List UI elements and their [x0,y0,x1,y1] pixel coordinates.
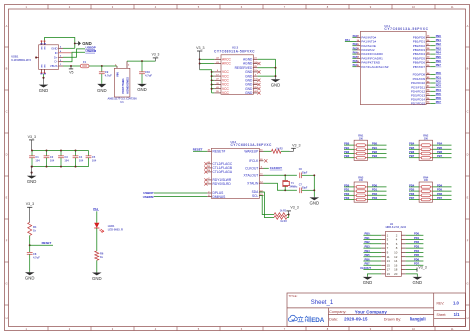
svg-text:HDR-F-2.54_2x10: HDR-F-2.54_2x10 [386,226,407,229]
wire net PD3_ [368,199,387,201]
junction [288,214,290,216]
ground at H1 right [416,276,418,278]
wire net PD5_ [433,190,452,192]
svg-text:PD3: PD3 [436,84,442,88]
power flag V3_3 at H1 [416,268,418,272]
wire net PB1_ [363,239,381,241]
svg-text:PB1: PB1 [436,38,442,42]
svg-text:V3_3: V3_3 [152,53,160,57]
U1 pin VOUT [126,61,128,68]
wire net PD4_ [406,251,424,253]
svg-text:Drawn By:: Drawn By: [384,317,402,321]
svg-text:F1: F1 [83,60,87,64]
svg-text:PD6_: PD6_ [437,192,444,196]
svg-text:PD2: PD2 [344,192,350,196]
svg-text:GND: GND [245,91,253,95]
U2.2 pin DMINUS [207,196,211,198]
wire net PD7 [409,199,419,201]
wire net PB2 [344,153,354,155]
U2.2 pin SDA [259,191,263,193]
junction [46,150,48,152]
wire net PD6_ [433,194,452,196]
svg-text:GND: GND [92,276,102,281]
wire VCC bus [200,70,212,93]
svg-text:G: G [466,282,468,286]
U2.2 pin CTL1/FLAGB [207,167,211,169]
svg-text:104: 104 [92,158,97,162]
svg-text:PD4_: PD4_ [437,183,444,187]
wire to net label RESET [30,244,53,246]
svg-text:CY7C68013A-56PVXC: CY7C68013A-56PVXC [231,143,272,147]
power flag V3_3 at U1 [155,58,157,61]
no-connect mark IFCLK [264,159,267,162]
RN1 resistor element 4 [354,157,356,159]
U2.2 pin CTL0/FLAGA [207,171,211,173]
svg-text:R4: R4 [33,225,37,229]
U2.3 pin AGND [253,58,257,60]
svg-text:GND: GND [25,276,35,281]
wire net PB5 [409,148,419,150]
svg-text:CLKOUT: CLKOUT [270,166,282,170]
svg-text:GND: GND [137,87,147,92]
resistor R6 [95,251,99,260]
wire net USBDM [154,196,208,198]
wire SCL to R1 [259,196,274,215]
U2.1 pin PD0/FD8 [426,74,430,76]
wire net PB2_ [363,243,381,245]
svg-text:liangjuli: liangjuli [410,317,426,322]
svg-text:19: 19 [387,272,391,276]
wire net PD4_ [433,186,452,188]
svg-text:PD6: PD6 [409,192,415,196]
wire net PD1_ [368,190,387,192]
H1 pin 9 [381,251,385,253]
RN3 resistor element 4 [354,199,356,201]
capacitor C8 [27,251,33,253]
svg-text:IFCLK: IFCLK [249,159,259,163]
wire net PB4_ [433,144,452,146]
junction [70,65,72,67]
junction [313,174,315,176]
junction [74,42,76,44]
svg-text:PB5: PB5 [409,146,415,150]
wire net PD1 [430,78,435,80]
svg-text:100: 100 [424,179,429,182]
capacitor C2 [46,151,48,156]
ground below USB1 [43,78,45,85]
svg-text:Company:: Company: [329,310,346,314]
svg-text:PB1_: PB1_ [365,236,372,240]
H1 pin 15 [381,264,385,266]
H1 pin 18 [401,269,405,271]
wire CLKOUT stub [264,167,269,169]
wire cap bank top rail [32,150,89,152]
svg-text:104: 104 [35,158,40,162]
ground at crystal [313,196,315,199]
svg-text:R6: R6 [100,252,104,256]
capacitor C7 [299,188,301,194]
power flag V3_3 at R1/R3 [288,211,290,215]
wire net USBDP [154,192,208,194]
U2.3 pin GND [253,84,257,86]
RN3 resistor element 2 [354,190,356,192]
RN4 resistor element 3 [419,194,421,196]
RN2 resistor element 1 [419,144,421,146]
svg-text:VCC: VCC [222,91,230,95]
svg-text:PD6: PD6 [436,96,442,100]
svg-text:PA7: PA7 [353,63,358,67]
fuse F1 [80,64,89,68]
svg-text:TITLE:: TITLE: [289,294,298,298]
svg-text:Your Company: Your Company [355,309,388,314]
svg-text:D: D [467,153,469,157]
svg-text:20pF: 20pF [302,172,308,175]
H1 pin 17 [381,269,385,271]
svg-text:PB2: PB2 [344,150,350,154]
svg-text:CTL0/FLAGA: CTL0/FLAGA [213,170,233,174]
RN4 resistor element 2 [419,190,421,192]
wire net PB7 [409,157,419,159]
svg-text:V3_3: V3_3 [196,46,204,50]
U2.1 pin PA0/INT0# [356,36,360,38]
wire net PD3 [344,199,354,201]
svg-text:PA3: PA3 [353,46,358,50]
H1 pin 7 [381,247,385,249]
svg-text:RESET: RESET [193,148,203,152]
junction on ground stem [31,172,33,174]
wire VBUS rail [63,65,80,67]
U2.2 pin RESET# [207,150,211,152]
wire XTALIN to crystal [264,183,297,190]
wire net PB6 [409,153,419,155]
svg-text:RESET#: RESET# [213,149,226,153]
svg-text:PB4_: PB4_ [365,249,372,253]
H1 pin 2 [401,234,405,236]
wire net PB3_ [363,247,381,249]
svg-text:GND: GND [39,88,49,93]
svg-text:100: 100 [359,137,364,140]
title block [287,293,466,327]
svg-text:PB6_: PB6_ [365,257,372,261]
svg-text:V3_3: V3_3 [26,202,34,206]
U2.2 pin SCL [259,195,263,197]
USB1 shell pins bottom [41,69,43,73]
svg-text:Sheet:: Sheet: [437,313,447,317]
svg-text:D+: D+ [54,55,58,59]
wire R1/R3 join [287,214,289,216]
svg-text:100: 100 [424,137,429,140]
svg-text:GND: GND [27,179,37,184]
wire VOUT to V3_3 [127,60,156,62]
svg-text:PD3: PD3 [344,196,350,200]
svg-text:PA7/FLAGD/SLCS#: PA7/FLAGD/SLCS# [361,65,388,69]
RN4 resistor element 1 [419,186,421,188]
svg-text:PD2: PD2 [436,80,442,84]
U2.1 pin PA4/FIFOADR0 [356,53,360,55]
wire net PB6_ [433,153,452,155]
junction [31,150,33,152]
wire XTALOUT to crystal [264,174,297,176]
svg-text:CY7C68013A-56PVXC: CY7C68013A-56PVXC [214,50,255,54]
H1 pin 19 [381,273,385,275]
svg-text:PD6_: PD6_ [414,257,421,261]
svg-text:PB5: PB5 [436,55,442,59]
svg-text:4.7uF: 4.7uF [33,255,40,259]
svg-text:PD0: PD0 [344,183,350,187]
RN1 resistor element 3 [354,153,356,155]
svg-text:H: H [6,316,8,320]
wire net PB7_ [433,157,452,159]
LED LED1 [94,223,99,228]
EasyEDA logo [288,315,297,321]
U2.2 pin XTALOUT [259,174,263,176]
svg-text:Date:: Date: [329,317,338,321]
svg-text:4.7uF: 4.7uF [105,74,112,78]
wire AVCC rows [200,58,215,60]
wire H1 pin19 to ground [368,274,382,277]
U2.1 pin PD7/FD15 [426,102,430,104]
wire net PB1 [344,148,354,150]
svg-text:PB1: PB1 [344,146,350,150]
U2.3 pin VCC [214,71,221,73]
svg-text:PD4: PD4 [409,183,415,187]
RN4 resistor element 4 [419,199,421,201]
wire net PB0_ [363,234,381,236]
wire net PD1 [344,190,354,192]
U2.1 pin PA1/INT1# [356,41,360,43]
wire net PB7 [430,66,435,68]
svg-text:GND: GND [413,280,423,285]
wire net PA5 [352,57,356,59]
wire net PD6 [430,99,435,101]
svg-text:PB5_: PB5_ [437,146,444,150]
svg-text:CLKOUT: CLKOUT [360,266,371,270]
resistor R4 [28,222,32,235]
svg-text:104: 104 [64,158,69,162]
svg-text:PB2: PB2 [436,42,442,46]
wire net PD2_ [406,243,424,245]
U2.3 pin GND [253,71,257,73]
svg-text:C: C [467,110,469,114]
H1 pin 14 [401,260,405,262]
svg-text:B: B [6,67,8,71]
wire net PD2_ [368,194,387,196]
svg-text:PD3_: PD3_ [372,196,379,200]
U2.3 pin GND [253,92,257,94]
svg-text:PA4: PA4 [353,51,358,55]
wire net PB3 [344,157,354,159]
svg-text:20pF: 20pF [302,187,308,190]
wire net PB0 [344,144,354,146]
svg-text:V3_3: V3_3 [292,143,300,147]
svg-text:XTALOUT: XTALOUT [244,173,259,177]
wire net PD0_ [368,186,387,188]
svg-text:E: E [6,196,8,200]
capacitor C5 [88,151,90,156]
wire AGND/GND to ground [258,58,276,60]
H1 pin 10 [401,251,405,253]
U1 pin VIN [116,66,118,68]
svg-text:PB6: PB6 [409,150,415,154]
svg-text:1k R2: 1k R2 [276,147,283,150]
wire net PD5 [430,94,435,96]
U2.1 pin PB0/FD0 [426,36,430,38]
H1 pin 16 [401,264,405,266]
U2.1 pin PB2/FD2 [426,45,430,47]
svg-text:PB3_: PB3_ [372,154,379,158]
U2.1 pin PA6/PKTEND [356,62,360,64]
svg-text:USB1: USB1 [11,54,19,58]
U2.2 pin XTALIN [259,182,263,184]
capacitor C3 [60,151,62,156]
svg-text:U1: U1 [120,100,124,104]
svg-text:PB3: PB3 [344,154,350,158]
svg-text:PB4: PB4 [436,51,442,55]
RN2 resistor element 3 [419,153,421,155]
svg-text:GND: GND [271,83,281,88]
USB connector USB1 [39,45,59,70]
U2.2 pin CTL2/FLAGC [207,163,211,165]
svg-text:A: A [467,24,469,28]
wire net PB3_ [368,157,387,159]
ground below cap bank [31,167,33,176]
U2.3 pin VCC [214,75,221,77]
U2.1 pin PD4/FD12 [426,90,430,92]
ground at H1 left [367,276,369,278]
svg-text:C: C [6,110,8,114]
svg-text:V3_3: V3_3 [28,135,36,139]
wire net PA4 [352,53,356,55]
wire net PB4 [409,144,419,146]
svg-text:AMS1117T-3.3_C347256: AMS1117T-3.3_C347256 [108,97,138,101]
svg-text:REV:: REV: [437,302,445,306]
U2.3 pin AGND [253,63,257,65]
svg-text:PB4_: PB4_ [437,142,444,146]
svg-text:PB7: PB7 [436,63,442,67]
wire net PA0 [352,36,356,38]
wire net PA6 [352,62,356,64]
svg-text:PD4_: PD4_ [414,249,421,253]
wire WAKEUP to R2 [264,150,272,152]
svg-text:PD0_: PD0_ [414,232,421,236]
U2.2 pin RDY1/SLWR [207,179,211,181]
wire USB D+ to net label [63,49,85,57]
svg-text:PD7: PD7 [436,100,442,104]
svg-text:H: H [467,316,469,320]
U2.2 pin IFCLK [259,160,263,162]
svg-text:DMINUS: DMINUS [213,195,227,199]
wire net PD0 [344,186,354,188]
junction [75,150,77,152]
wire net PD7_ [406,264,424,266]
H1 pin 5 [381,243,385,245]
junction [101,65,103,67]
wire net PD1_ [406,239,424,241]
U2.2 pin RDY0/SLRD [207,183,211,185]
U2.3 pin VCC [214,84,221,86]
wire net PD5 [409,190,419,192]
wire net PB7_ [363,264,381,266]
wire net PB0_ [368,144,387,146]
capacitor C4 [75,151,77,156]
wire H1 pin18 to V3_3 [406,269,417,271]
H1 pin 13 [381,260,385,262]
wire net PD4 [409,186,419,188]
U2.1 pin PD6/FD14 [426,99,430,101]
wire shell to top rail [45,38,75,49]
svg-text:V3_3: V3_3 [418,266,426,270]
svg-text:GND: GND [363,280,373,285]
USB1 unconnected ID pin [59,52,72,54]
ground below C9 [101,83,103,85]
svg-text:PB0: PB0 [436,34,442,38]
junction [60,150,62,152]
svg-text:C8: C8 [33,252,37,256]
svg-text:AVCC: AVCC [222,62,231,66]
svg-text:PD1_: PD1_ [372,188,379,192]
svg-text:D: D [6,153,8,157]
wire USB GND to ground below [43,74,45,78]
USB1 shield pin left [36,57,39,59]
svg-text:PA2: PA2 [353,42,358,46]
svg-text:C9: C9 [105,70,109,74]
wire net PD0_ [406,234,424,236]
wire net PD0 [430,74,435,76]
svg-text:PD7_: PD7_ [437,196,444,200]
svg-text:PD5: PD5 [436,92,442,96]
U2.3 pin GND [253,75,257,77]
svg-text:XTALIN: XTALIN [247,181,259,185]
svg-text:PB5_: PB5_ [365,253,372,257]
RN3 resistor element 3 [354,194,356,196]
svg-text:PD5_: PD5_ [414,253,421,257]
svg-text:PB0: PB0 [344,142,350,146]
svg-text:PA1: PA1 [93,207,98,211]
U2.3 pin AVCC [214,63,221,65]
svg-text:PB1_: PB1_ [372,146,379,150]
H1 pin 8 [401,247,405,249]
svg-text:VBUS: VBUS [50,64,58,68]
svg-text:2020-09-15: 2020-09-15 [344,317,368,322]
U2.3 pin VCC [214,88,221,90]
svg-text:V5: V5 [69,70,73,74]
U2.1 pin PD2/FD10 [426,82,430,84]
ground below R6 [96,271,98,274]
H1 pin 6 [401,243,405,245]
U2.2 pin DPLUS [207,192,211,194]
U2.3 pin AVCC [214,58,221,60]
svg-text:CY7C68013A-56PVXC: CY7C68013A-56PVXC [384,27,428,31]
wire net PD7 [430,102,435,104]
U2.1 pin PB6/FD6 [426,62,430,64]
svg-text:PB7_: PB7_ [365,262,372,266]
U2.1 pin PB3/FD3 [426,49,430,51]
svg-text:SCL: SCL [252,194,259,198]
wire net PB2 [430,45,435,47]
svg-text:PB3_: PB3_ [365,245,372,249]
resistor R3 [274,216,287,220]
wire net PD3_ [406,247,424,249]
wire net PB5_ [363,256,381,258]
wire net PB1_ [368,148,387,150]
RN2 resistor element 4 [419,157,421,159]
wire net PD6_ [406,260,424,262]
U2.1 pin PD1/FD9 [426,78,430,80]
H1 pin 4 [401,239,405,241]
wire net PA7 [352,66,356,68]
H1 pin 1 [381,234,385,236]
svg-text:1k R1: 1k R1 [280,210,287,213]
